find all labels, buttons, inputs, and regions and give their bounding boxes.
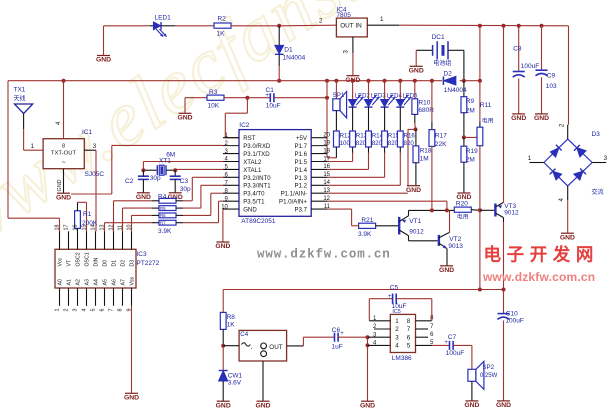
svg-text:D2: D2 bbox=[121, 260, 127, 267]
svg-text:8: 8 bbox=[117, 309, 123, 312]
zener CW1 3.6V bbox=[222, 346, 224, 371]
svg-text:天线: 天线 bbox=[14, 95, 26, 103]
transistor VT2 9013 bbox=[438, 235, 440, 246]
resistor R13 820 bbox=[350, 131, 356, 147]
node DC1/D2/R9 bbox=[462, 79, 466, 83]
svg-text:4: 4 bbox=[81, 309, 87, 312]
svg-text:R7: R7 bbox=[160, 221, 166, 226]
wire +5V riser (rail to pin20 and R12) bbox=[325, 79, 329, 83]
svg-text:OUT: OUT bbox=[340, 23, 354, 30]
svg-text:GND: GND bbox=[243, 206, 257, 213]
IC2 pin 13 stub bbox=[311, 192, 327, 194]
svg-text:Vcc: Vcc bbox=[58, 257, 64, 266]
svg-text:XTAL2: XTAL2 bbox=[243, 159, 262, 166]
IC4 pin3 lead bbox=[352, 37, 354, 53]
wire R5 left to IC3 bbox=[152, 207, 159, 209]
svg-text:IC3: IC3 bbox=[137, 251, 148, 258]
LED2 bbox=[351, 79, 355, 83]
node D1 bottom on +5V rail bbox=[277, 79, 281, 83]
svg-text:XTAL1: XTAL1 bbox=[243, 167, 262, 174]
svg-text:16: 16 bbox=[72, 225, 78, 231]
antenna TX1 bbox=[15, 104, 33, 114]
bridge lead 4 (bottom) to ground bbox=[567, 186, 569, 200]
IC2 pin 20 stub bbox=[311, 137, 327, 139]
resistor R6 3.9K bbox=[159, 213, 176, 218]
svg-text:1: 1 bbox=[31, 143, 35, 150]
wire R10 node to ground stem bbox=[408, 128, 416, 130]
node top rail x=503.5 bbox=[502, 24, 506, 28]
amplifier IC5 LM386 bbox=[390, 314, 415, 352]
svg-text:GND: GND bbox=[215, 243, 230, 250]
receiver module IC1 SJ05C bbox=[43, 139, 84, 169]
node R8/CW1/module bbox=[221, 344, 225, 348]
svg-text:D1: D1 bbox=[284, 46, 293, 53]
IC2 pin 10 stub bbox=[223, 208, 239, 210]
node D1 top bbox=[277, 24, 281, 28]
svg-text:RST: RST bbox=[243, 135, 255, 142]
svg-text:A1: A1 bbox=[67, 279, 73, 285]
ground (module) bbox=[255, 401, 270, 409]
node R11 line/audio rail bbox=[478, 288, 482, 292]
wire R11 line to audio rail bbox=[479, 210, 481, 289]
svg-text:IC5: IC5 bbox=[392, 309, 400, 315]
IC3 top pin 13 stub bbox=[104, 231, 106, 249]
resistor R14 820 bbox=[366, 131, 372, 147]
wire R4 left to IC3 bbox=[152, 200, 159, 202]
wire +5V rail bbox=[8, 80, 442, 82]
ground (IC1 pin2) bbox=[56, 193, 71, 201]
svg-text:8: 8 bbox=[407, 318, 411, 325]
ground (IC4 pin3) bbox=[345, 76, 360, 84]
wire R7 left to IC3 bbox=[152, 222, 159, 224]
svg-text:~: ~ bbox=[61, 160, 65, 167]
svg-text:4: 4 bbox=[395, 343, 399, 350]
wire R7 right to IC2 pin9 bbox=[176, 222, 183, 224]
svg-text:1uF: 1uF bbox=[332, 343, 343, 350]
svg-text:1: 1 bbox=[528, 155, 532, 162]
wire R6 left to IC3 bbox=[152, 214, 159, 216]
capacitor C3 30p bbox=[174, 170, 176, 175]
wire IC2 pin11 net to R21 bbox=[327, 208, 351, 210]
ground (DC1) bbox=[409, 66, 424, 74]
IC3 top pin 16 stub bbox=[77, 231, 79, 249]
IC3 bottom pin 4 stub bbox=[86, 288, 88, 306]
wire R11 to R20 node bbox=[479, 146, 481, 211]
wire R3 to C1 bbox=[224, 97, 270, 99]
svg-text:交流: 交流 bbox=[592, 188, 604, 196]
svg-text:GND: GND bbox=[57, 179, 63, 191]
wire gnd branch down bbox=[367, 337, 369, 401]
svg-text:GND: GND bbox=[534, 115, 549, 122]
svg-text:R1: R1 bbox=[83, 211, 92, 218]
svg-text:P1.0/AIN+: P1.0/AIN+ bbox=[279, 199, 307, 206]
node pin3/gnd branch bbox=[366, 335, 370, 339]
decoder IC3 PT2272 bbox=[55, 249, 136, 288]
svg-text:100uF: 100uF bbox=[521, 63, 539, 70]
svg-text:LED3: LED3 bbox=[371, 94, 387, 100]
svg-text:GND: GND bbox=[56, 194, 71, 201]
svg-text:7: 7 bbox=[407, 326, 411, 333]
svg-text:100uF: 100uF bbox=[446, 350, 464, 357]
svg-text:C2: C2 bbox=[125, 178, 134, 185]
transistor VT1 9012 bbox=[398, 217, 400, 235]
svg-text:1K: 1K bbox=[227, 321, 236, 328]
capacitor C6 1uF bbox=[334, 333, 336, 342]
capacitor C5 10uF (gain) bbox=[368, 299, 370, 321]
IC2 pin 6 stub bbox=[223, 176, 239, 178]
wire rail right of D2 bbox=[460, 80, 480, 82]
wire P3.0/RXD net from ground tap bbox=[71, 193, 112, 195]
resistor R17 22K bbox=[431, 81, 433, 122]
svg-text:P3.1/TXD: P3.1/TXD bbox=[243, 151, 270, 158]
svg-text:GND: GND bbox=[406, 187, 421, 194]
LM386 pin5 stub bbox=[416, 344, 433, 346]
wire IC2 pin14 to R16 bbox=[399, 147, 401, 153]
svg-text:9012: 9012 bbox=[504, 210, 519, 217]
wire antenna to IC1 pin1 bbox=[24, 149, 43, 151]
IC3 bottom pin 6 stub bbox=[104, 288, 106, 306]
MCU IC2 AT89C2051 bbox=[239, 130, 311, 217]
svg-text:P1.7: P1.7 bbox=[294, 143, 307, 150]
svg-text:GND: GND bbox=[496, 402, 511, 409]
IC3 top pin 11 stub bbox=[122, 231, 124, 249]
wire VT2 emitter to ground bbox=[446, 249, 448, 266]
IC2 pin 16 stub bbox=[311, 168, 327, 170]
svg-text:R16: R16 bbox=[404, 133, 416, 140]
bridge rectifier D3 bbox=[544, 139, 592, 186]
svg-text:GND: GND bbox=[409, 68, 424, 75]
svg-text:3: 3 bbox=[395, 334, 399, 341]
svg-text:GND: GND bbox=[177, 115, 192, 122]
wire IC2 pin15 to R15 bbox=[384, 147, 386, 153]
svg-text:1: 1 bbox=[395, 318, 399, 325]
svg-text:P1.5: P1.5 bbox=[294, 159, 307, 166]
svg-text:30p: 30p bbox=[150, 175, 161, 182]
speaker SP1 bbox=[334, 79, 338, 83]
wire VT2 collector to R20 left bbox=[449, 210, 451, 232]
bridge diode lower-left bbox=[553, 171, 562, 180]
LED5 bbox=[398, 79, 402, 83]
svg-text:电用: 电用 bbox=[457, 213, 469, 221]
svg-text:GND: GND bbox=[124, 395, 139, 402]
wire VT1 collector up bbox=[408, 210, 410, 215]
svg-text:GND: GND bbox=[439, 267, 454, 274]
svg-text:0.25W: 0.25W bbox=[480, 373, 498, 379]
LED1 bbox=[150, 25, 153, 27]
svg-text:1M: 1M bbox=[420, 156, 429, 163]
svg-text:R5: R5 bbox=[160, 206, 166, 211]
svg-text:P3.2/INT0: P3.2/INT0 bbox=[243, 175, 271, 182]
resistor R12 100 bbox=[334, 131, 340, 147]
svg-text:SP2: SP2 bbox=[482, 364, 494, 371]
svg-text:6: 6 bbox=[99, 309, 105, 312]
IC2 pin 2 stub bbox=[223, 145, 239, 147]
svg-text:P3.0/RXD: P3.0/RXD bbox=[243, 143, 271, 150]
svg-text:15: 15 bbox=[81, 225, 87, 231]
wire top rail corner down to bridge bbox=[568, 26, 570, 125]
svg-text:A7: A7 bbox=[121, 279, 127, 285]
wire IC2 pin12 net to audio stage bbox=[327, 200, 447, 202]
svg-text:D0: D0 bbox=[103, 260, 109, 267]
svg-text:5: 5 bbox=[90, 309, 96, 312]
wire IC3 pin9 Vss to ground bbox=[131, 306, 133, 394]
battery DC1 bbox=[416, 49, 432, 51]
svg-text:A5: A5 bbox=[103, 279, 109, 285]
IC2 pin 14 stub bbox=[311, 184, 327, 186]
node pin4 junction bbox=[366, 343, 370, 347]
svg-text:A2: A2 bbox=[76, 279, 82, 285]
svg-text:R19: R19 bbox=[466, 148, 478, 155]
svg-text:DC1: DC1 bbox=[432, 34, 445, 41]
wire R4 right to IC2 pin6 bbox=[176, 200, 183, 202]
resistor R15 820 bbox=[382, 131, 388, 147]
resistor R10 680R bbox=[413, 79, 417, 83]
node top rail x=518.7 bbox=[517, 24, 521, 28]
ground (CW1) bbox=[216, 401, 231, 409]
svg-text:P1.4: P1.4 bbox=[294, 167, 307, 174]
svg-text:1: 1 bbox=[54, 309, 60, 312]
wire DC1 left to ground bbox=[415, 50, 417, 66]
svg-text:C9: C9 bbox=[547, 73, 556, 80]
wire SP2 to ground bbox=[471, 381, 473, 401]
ground (C9) bbox=[534, 114, 549, 122]
svg-text:9012: 9012 bbox=[409, 229, 424, 236]
ground (R19) bbox=[456, 193, 471, 201]
wire R2 to D1 node bbox=[231, 25, 279, 27]
svg-text:R2: R2 bbox=[218, 16, 227, 23]
svg-text:IN: IN bbox=[355, 23, 362, 30]
wire module OUT to C6 bbox=[287, 345, 304, 347]
wire R12 bottom lead bbox=[335, 147, 337, 158]
svg-text:P3.5/T1: P3.5/T1 bbox=[243, 199, 265, 206]
svg-text:LED5: LED5 bbox=[403, 94, 419, 100]
wire +5V to IC3 Vcc bbox=[8, 217, 60, 219]
node XT1 right bbox=[173, 168, 177, 172]
svg-text:+: + bbox=[444, 340, 448, 346]
svg-text:www.dzkfw.com.cn: www.dzkfw.com.cn bbox=[482, 270, 595, 284]
svg-text:100: 100 bbox=[340, 140, 351, 147]
ground (IC2 pin10) bbox=[215, 242, 230, 250]
IC2 pin 4 stub bbox=[223, 160, 239, 162]
wire RST net to IC2 pin1 bbox=[246, 98, 248, 114]
svg-text:GND: GND bbox=[136, 194, 151, 201]
svg-text:14: 14 bbox=[90, 225, 96, 231]
wire IC2 pin17 to R13 bbox=[352, 147, 354, 153]
IC3 top pin 12 stub bbox=[113, 231, 115, 249]
capacitor C1 10uF bbox=[269, 93, 271, 102]
svg-text:13: 13 bbox=[99, 225, 105, 231]
LM386 pin2 stub bbox=[374, 328, 390, 330]
LED4 bbox=[383, 79, 387, 83]
svg-text:2: 2 bbox=[319, 18, 323, 25]
svg-text:R20: R20 bbox=[456, 201, 468, 208]
svg-text:VT1: VT1 bbox=[409, 218, 421, 225]
bridge diode lower-right bbox=[574, 171, 583, 180]
svg-text:www.dzkfw.com.cn: www.dzkfw.com.cn bbox=[257, 247, 391, 261]
svg-text:电池组: 电池组 bbox=[433, 59, 451, 67]
svg-text:P3.7: P3.7 bbox=[294, 206, 307, 213]
svg-text:GND: GND bbox=[360, 402, 375, 409]
ground (C10) bbox=[496, 401, 511, 409]
node R9/R19/wire bbox=[462, 135, 466, 139]
svg-text:A4: A4 bbox=[94, 279, 100, 285]
speaker SP2 0.25W bbox=[468, 369, 476, 381]
IC2 pin 5 stub bbox=[223, 168, 239, 170]
svg-text:C3: C3 bbox=[180, 178, 189, 185]
ground (LM386 input) bbox=[360, 401, 375, 409]
svg-text:6M: 6M bbox=[166, 152, 175, 159]
capacitor C10 100uF bbox=[503, 290, 505, 314]
node rail/R11 bbox=[478, 79, 482, 83]
wire module left pin bbox=[223, 345, 239, 347]
wire R6 right to IC2 pin8 bbox=[176, 214, 183, 216]
svg-text:R18: R18 bbox=[420, 147, 432, 154]
node R10/R18/GND-wire bbox=[414, 127, 418, 131]
IC2 pin 15 stub bbox=[311, 176, 327, 178]
svg-text:TXT-OUT: TXT-OUT bbox=[51, 151, 77, 157]
crystal XT1 6M bbox=[143, 169, 157, 171]
svg-text:GND: GND bbox=[255, 402, 270, 409]
wire IC1 pin2 to ground bbox=[63, 169, 65, 194]
svg-text:C4: C4 bbox=[240, 331, 248, 338]
svg-text:22K: 22K bbox=[435, 141, 447, 148]
ground (SP2) bbox=[464, 401, 479, 409]
svg-text:C7: C7 bbox=[448, 334, 457, 341]
svg-text:D2: D2 bbox=[444, 71, 453, 78]
svg-text:1N4004: 1N4004 bbox=[283, 55, 306, 62]
IC2 pin 18 stub bbox=[311, 153, 327, 155]
IC2 pin 1 stub bbox=[223, 137, 239, 139]
svg-text:8: 8 bbox=[62, 143, 65, 149]
svg-text:R8: R8 bbox=[227, 314, 236, 321]
wire audio supply rail bbox=[223, 289, 503, 291]
IC3 top pin 10 stub bbox=[131, 231, 133, 249]
svg-text:OUT: OUT bbox=[269, 344, 282, 351]
svg-text:3: 3 bbox=[604, 155, 608, 162]
svg-text:3: 3 bbox=[72, 309, 78, 312]
svg-text:IC1: IC1 bbox=[82, 129, 93, 136]
svg-text:R4: R4 bbox=[158, 194, 167, 201]
svg-text:C5: C5 bbox=[390, 284, 399, 291]
LM386 pin1 stub bbox=[369, 320, 390, 322]
resistor R21 3.9K bbox=[359, 223, 376, 228]
svg-text:P3.3/INT1: P3.3/INT1 bbox=[243, 183, 271, 190]
svg-text:P3.4/T0: P3.4/T0 bbox=[243, 191, 265, 198]
svg-text:2: 2 bbox=[395, 326, 399, 333]
wire R5 right to IC2 pin7 bbox=[176, 207, 183, 209]
wire pin4 stub bbox=[368, 344, 391, 346]
resistor R5 3.9K bbox=[159, 206, 176, 211]
svg-text:R6: R6 bbox=[160, 213, 166, 218]
svg-text:SP1: SP1 bbox=[333, 92, 345, 99]
svg-text:LED1: LED1 bbox=[155, 15, 172, 22]
resistor R7 3.9K bbox=[159, 220, 176, 225]
svg-text:3: 3 bbox=[93, 143, 97, 150]
svg-text:P1.6: P1.6 bbox=[294, 151, 307, 158]
svg-text:IC2: IC2 bbox=[239, 122, 250, 129]
svg-text:P1.2: P1.2 bbox=[294, 183, 307, 190]
svg-text:D3: D3 bbox=[130, 260, 136, 267]
svg-text:2M: 2M bbox=[466, 107, 475, 114]
svg-text:10: 10 bbox=[126, 225, 132, 231]
IC3 bottom pin 5 stub bbox=[95, 288, 97, 306]
resistor R4 3.9K bbox=[159, 198, 176, 203]
wire R9 node to R11 line bbox=[464, 136, 480, 138]
wire IC1 pin3 out bbox=[84, 149, 96, 151]
svg-text:A0: A0 bbox=[58, 279, 64, 285]
resistor R19 2M bbox=[463, 137, 465, 146]
svg-text:+: + bbox=[265, 92, 269, 99]
svg-text:GND: GND bbox=[96, 57, 111, 64]
resistor R20 bbox=[454, 207, 471, 212]
node rail/IC1 pin4 bbox=[62, 79, 66, 83]
svg-text:18: 18 bbox=[54, 225, 60, 231]
svg-text:电子开发网: 电子开发网 bbox=[484, 244, 600, 264]
svg-text:3.6V: 3.6V bbox=[228, 380, 242, 387]
ground (R18) bbox=[406, 186, 421, 194]
wire IC1 pin4 to rail bbox=[63, 81, 65, 139]
capacitor C9 103 bbox=[541, 26, 543, 70]
svg-text:R17: R17 bbox=[435, 132, 447, 139]
wire DIN riser to IC3 pin14 bbox=[95, 150, 97, 231]
capacitor C2 30p bbox=[142, 170, 144, 175]
wire module bottom pin to ground bbox=[262, 361, 264, 401]
svg-text:C6: C6 bbox=[332, 327, 341, 334]
ground (C2) bbox=[136, 193, 151, 201]
IC2 pin 3 stub bbox=[223, 153, 239, 155]
svg-text:18: 18 bbox=[323, 148, 330, 154]
svg-text:30p: 30p bbox=[180, 186, 191, 193]
wire R3 left to ground bbox=[184, 98, 186, 114]
transistor VT3 9012 bbox=[494, 204, 496, 217]
wire C1 to +5V riser bbox=[275, 97, 328, 99]
node R17 line junction bbox=[430, 208, 434, 212]
svg-text:+: + bbox=[340, 331, 344, 337]
wire top-left rail bbox=[104, 25, 151, 27]
wire VT3 emitter vertical bbox=[503, 26, 505, 203]
ground (D3) bbox=[560, 233, 575, 241]
wire XTAL1 net bbox=[175, 168, 223, 170]
svg-text:R9: R9 bbox=[466, 98, 475, 105]
svg-text:R3: R3 bbox=[209, 89, 218, 96]
svg-text:7805: 7805 bbox=[336, 12, 351, 19]
svg-text:电用: 电用 bbox=[482, 117, 494, 125]
resistor R11 bbox=[479, 122, 481, 128]
IC2 pin 12 stub bbox=[311, 200, 327, 202]
node top rail x=541.5 bbox=[540, 24, 544, 28]
ground (VT2) bbox=[439, 266, 454, 274]
ground (IC3 Vss) bbox=[124, 393, 139, 401]
top power rail bbox=[399, 24, 569, 27]
svg-text:11: 11 bbox=[117, 225, 123, 231]
wire R11 feed vertical bbox=[479, 26, 481, 81]
IC3 bottom pin 3 stub bbox=[77, 288, 79, 306]
wire node to IC4 pin2 bbox=[279, 24, 336, 27]
svg-text:P1.3: P1.3 bbox=[294, 175, 307, 182]
svg-text:20: 20 bbox=[323, 133, 330, 139]
svg-text:TX1: TX1 bbox=[14, 86, 26, 93]
svg-text:820: 820 bbox=[372, 140, 383, 147]
LM386 pin8 stub bbox=[416, 320, 432, 322]
IC2 pin 7 stub bbox=[223, 184, 239, 186]
IC2 pin 17 stub bbox=[311, 160, 327, 162]
IC2 pin 11 stub bbox=[311, 208, 327, 210]
svg-text:AT89C2051: AT89C2051 bbox=[241, 218, 276, 225]
svg-text:10K: 10K bbox=[208, 102, 220, 109]
node RST/C1 bbox=[245, 96, 249, 100]
ground (C8) bbox=[511, 114, 526, 122]
IC3 top pin 18 stub bbox=[59, 231, 61, 249]
